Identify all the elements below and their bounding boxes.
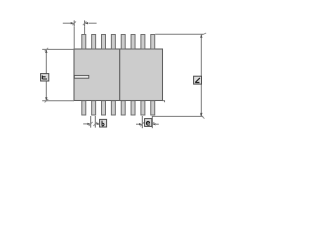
dimension e top-left: left tick	[73, 20, 75, 26]
dimension E1 arrow top	[45, 49, 47, 53]
pin T4	[111, 35, 115, 50]
pin B3	[102, 101, 106, 115]
dimension E1 arrow top slash	[45, 48, 49, 51]
pin T8	[151, 35, 155, 50]
dimension b: left extension down	[90, 116, 92, 128]
dimension E1 label glyph	[42, 76, 47, 80]
dimension E1 arrow bottom slash	[45, 99, 49, 102]
dimension E arrow bottom	[200, 113, 202, 117]
dimension b label box	[100, 119, 107, 127]
dimension e top-left: right tick	[84, 20, 86, 26]
dimension E extension line top	[155, 33, 203, 35]
dimension e bottom: left arrow slash	[140, 122, 144, 126]
pin B2	[92, 101, 96, 115]
pin T6	[131, 35, 135, 50]
dimension E1 line	[45, 50, 47, 101]
package body U1	[74, 49, 163, 101]
pin T2	[92, 35, 96, 50]
pin 1 tab marker	[74, 75, 89, 78]
pin B1	[82, 101, 86, 115]
dimension b: right arrowhead	[95, 123, 98, 125]
dimension e label box	[145, 119, 152, 127]
body corner step	[163, 101, 165, 103]
dimension E extension line bottom	[152, 115, 203, 117]
dimension E1 arrow bottom	[45, 97, 47, 101]
pin B4	[111, 101, 115, 115]
dimension e top-left: right arrowhead	[85, 22, 89, 24]
pin B7	[141, 101, 145, 115]
dimension e top-left: left arrow tail	[63, 22, 72, 24]
dimension b: left arrow slash	[89, 122, 93, 126]
dimension E extension line bottom tail	[200, 115, 204, 119]
dimension E1 extension line bottom	[42, 100, 74, 102]
dimension e bottom: right arrow slash	[150, 122, 154, 126]
pin T1	[82, 35, 86, 50]
dimension b: left arrowhead	[87, 123, 90, 125]
dimension b label glyph	[102, 121, 104, 126]
dimension E extension line top tail	[202, 33, 206, 35]
dimension E1 extension line top	[42, 48, 74, 50]
top pin row	[82, 35, 155, 50]
dimension E line	[200, 34, 202, 116]
dimension e top-left: left arrowhead	[71, 22, 75, 24]
dimension e top-left: left extension down	[73, 27, 75, 49]
pin B8	[151, 101, 155, 115]
dimension e label glyph	[146, 121, 149, 125]
dimension b: right arrow slash	[93, 122, 97, 126]
body center line	[119, 49, 121, 100]
pin T5	[121, 35, 125, 50]
dimension e top-left: right extension down	[84, 27, 86, 35]
pin T7	[141, 35, 145, 50]
dimension e bottom: left arrowhead	[139, 123, 142, 125]
dimension E label glyph	[195, 78, 200, 83]
pin B5	[121, 101, 125, 115]
dimension E label box	[194, 76, 202, 84]
pin T3	[102, 35, 106, 50]
dimension e bottom: left arrow tail	[136, 123, 140, 125]
dimension e top-left: right arrow tail	[89, 22, 97, 24]
dimension e bottom: right arrow tail	[156, 123, 159, 125]
dimension e bottom: right arrowhead	[152, 123, 155, 125]
bottom pin row	[82, 101, 155, 115]
dimension E1 label box	[41, 74, 49, 81]
dimension e bottom: right extension down	[151, 116, 153, 128]
dimension e bottom: left extension down	[141, 116, 143, 128]
dimension b: right extension down	[94, 116, 96, 128]
dimension e top-left: right tip slash	[83, 21, 87, 25]
dimension b: left arrow tail	[83, 123, 88, 125]
pin B6	[131, 101, 135, 115]
dimension E arrow top	[200, 34, 202, 38]
dimension e top-left: left tip slash	[72, 21, 76, 25]
